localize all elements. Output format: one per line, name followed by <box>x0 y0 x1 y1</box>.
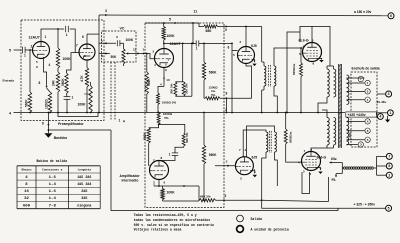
potentiometer 50K <box>120 42 124 44</box>
svg-text:560K: 560K <box>147 78 151 86</box>
svg-text:Voltajes relativos a masa: Voltajes relativos a masa <box>134 228 182 232</box>
wire V2 grid feed <box>67 53 76 73</box>
svg-text:560K: 560K <box>143 132 147 140</box>
svg-text:68K: 68K <box>206 29 213 33</box>
svg-text:11: 11 <box>194 10 198 14</box>
resistor R14 560K grid leak V4 <box>203 43 205 62</box>
tube V8 6L6-G <box>302 152 321 171</box>
svg-text:560K: 560K <box>25 99 29 107</box>
svg-text:1: 1 <box>24 54 26 58</box>
wire loop under bus <box>58 113 98 117</box>
resistor R4 24K <box>56 72 59 92</box>
svg-text:600 v. salvo si se especifica: 600 v. salvo si se especifica un contrar… <box>134 223 214 227</box>
svg-text:6J5: 6J5 <box>252 155 258 159</box>
svg-text:5: 5 <box>388 206 390 210</box>
svg-text:todas los condensadores en mic: todas los condensadores en microfaradios <box>134 218 211 222</box>
svg-text:7: 7 <box>388 155 390 159</box>
svg-text:-46-48v: -46-48v <box>376 100 387 104</box>
output transformer primary lower <box>327 118 329 146</box>
svg-text:68K 5%: 68K 5% <box>200 194 211 198</box>
svg-text:63v.: 63v. <box>331 157 337 161</box>
input coupling capacitor C1 <box>22 47 24 53</box>
svg-text:12AU7: 12AU7 <box>29 36 40 40</box>
svg-text:4.7K: 4.7K <box>80 75 84 82</box>
svg-text:ninguna: ninguna <box>77 203 91 208</box>
svg-text:Todas las resistencias—10%, 5: Todas las resistencias—10%, 5 w y <box>134 213 197 217</box>
T2 wires <box>243 130 266 158</box>
svg-text:16: 16 <box>24 190 29 194</box>
resistor R9 560K grid leak V3 <box>146 53 148 55</box>
svg-text:560K: 560K <box>209 70 217 74</box>
chassis rail wire <box>48 129 111 131</box>
socket pin 1 <box>365 80 370 85</box>
svg-text:Bobina de salida: Bobina de salida <box>37 159 68 163</box>
preamplifier dashed enclosure <box>21 20 104 121</box>
svg-text:2&5: 2&5 <box>81 190 87 194</box>
T2 secondary <box>275 132 277 152</box>
svg-text:4: 4 <box>9 112 11 116</box>
V8 cathode ground <box>315 168 321 170</box>
svg-text:3: 3 <box>105 9 107 13</box>
resistor R17 500 ohm 1w <box>300 47 302 49</box>
svg-text:100K: 100K <box>167 190 176 194</box>
svg-text:9: 9 <box>225 28 227 32</box>
svg-text:VC: VC <box>120 27 125 31</box>
svg-text:1: 1 <box>66 33 68 37</box>
svg-text:100K: 100K <box>78 103 87 107</box>
V8 plate wire to transformer <box>311 148 327 152</box>
V7 cathode ground <box>316 59 322 60</box>
terminal 6 top right <box>388 13 394 19</box>
output transformer secondary lower <box>347 118 349 146</box>
svg-text:6: 6 <box>82 35 84 39</box>
wire bottom left long run <box>111 130 338 211</box>
svg-text:4: 4 <box>379 115 381 119</box>
capacitor C6 <box>175 146 184 153</box>
interstage transformer T1 primary <box>262 61 264 63</box>
wire input cap to V1 grid <box>25 49 32 51</box>
svg-text:3&5: 3&5 <box>81 197 87 201</box>
socket pin 2 <box>365 89 370 94</box>
volume control VC dashed enclosure <box>102 31 137 62</box>
svg-text:4: 4 <box>49 63 51 67</box>
svg-text:+ 325 - + 350v: + 325 - + 350v <box>354 203 376 207</box>
svg-text:1000Ω 5%: 1000Ω 5% <box>162 101 177 105</box>
svg-text:560K: 560K <box>209 153 217 157</box>
terminal 1 right <box>377 112 388 114</box>
svg-text:30K 5%: 30K 5% <box>185 83 189 94</box>
V5 cathode network <box>158 180 160 187</box>
svg-text:Amplificador: Amplificador <box>120 174 141 178</box>
svg-text:6L6-G: 6L6-G <box>317 156 327 160</box>
svg-text:1&5 2&6: 1&5 2&6 <box>77 176 91 180</box>
svg-text:Preamplificador: Preamplificador <box>58 122 84 126</box>
heater terminals 7 8 2 <box>376 156 378 175</box>
svg-text:Conexiones a: Conexiones a <box>42 168 62 172</box>
svg-text:6: 6 <box>228 46 230 50</box>
svg-text:600: 600 <box>23 204 31 208</box>
socket pin 6 <box>365 128 370 133</box>
tube V5 triode <box>150 161 169 180</box>
dashed wires below VC <box>110 62 112 120</box>
svg-text:1-4: 1-4 <box>49 183 57 187</box>
svg-text:50K: 50K <box>111 55 118 59</box>
resistor R20 30K 5% lower <box>182 133 185 146</box>
svg-text:Enchufe de salida: Enchufe de salida <box>352 66 380 70</box>
svg-text:24K: 24K <box>51 79 55 86</box>
svg-text:8: 8 <box>226 92 228 96</box>
svg-text:8: 8 <box>388 164 390 168</box>
svg-text:3: 3 <box>225 194 227 198</box>
svg-text:5%: 5% <box>164 116 169 120</box>
T1 core <box>268 65 270 87</box>
svg-text:5: 5 <box>9 48 11 52</box>
wire +325 +350v run <box>261 199 263 201</box>
svg-text:10: 10 <box>166 78 170 82</box>
resistor R18 500 ohm 1w lower <box>285 113 287 130</box>
svg-text:7-8: 7-8 <box>49 204 57 208</box>
capacitor C3 bottom <box>66 94 69 97</box>
svg-text:30K 5%: 30K 5% <box>185 132 189 143</box>
wire 3/11 top bus <box>99 14 388 17</box>
resistor R5 560K <box>65 73 68 94</box>
wire V2 plate to HT vertical <box>86 34 88 44</box>
svg-text:30K 5%: 30K 5% <box>169 83 173 94</box>
resistor R13 1000 ohm 5% <box>158 112 160 114</box>
wire V4 grid junction down <box>231 51 233 113</box>
wire screen feed V7 <box>287 32 300 113</box>
chassis ground symbol <box>47 113 49 134</box>
V7 plate circuit rectangle <box>300 26 330 65</box>
divider wires from plate line <box>182 43 184 45</box>
bias line -46-48v to terminal 3 <box>377 93 385 95</box>
svg-text:100K: 100K <box>126 38 134 42</box>
svg-text:1: 1 <box>45 35 47 39</box>
tube V2 12AU7 triode b <box>79 44 95 60</box>
wire 5 (amp box top) <box>145 22 193 24</box>
svg-text:1: 1 <box>169 153 171 157</box>
wire line A to V8 <box>262 200 329 201</box>
output socket (Enchufe de salida) dashed enclosure <box>351 72 377 147</box>
resistor R15 68K <box>193 22 199 24</box>
V4 plate wire <box>245 27 247 47</box>
resistor R1 560K grid leak V1 <box>29 49 31 51</box>
resistor R3 100K plate load V1 <box>57 28 59 30</box>
svg-text:Fil.: Fil. <box>332 178 337 182</box>
heater winding braid <box>341 163 343 174</box>
tube V4 6J5 <box>238 47 255 64</box>
wire C5 to V4 grid <box>199 43 238 50</box>
coupling capacitor C5 <box>164 42 196 44</box>
wire to 68K 5% <box>198 199 200 201</box>
wire vertical left B+ drop <box>98 15 100 113</box>
V6 cathode ground <box>250 171 255 173</box>
resistor R7 100K <box>90 82 92 86</box>
svg-text:1-6: 1-6 <box>49 190 57 194</box>
resistors R10 R11 30K 5% ladder <box>175 81 183 83</box>
svg-text:500Ω1w.: 500Ω1w. <box>289 131 293 143</box>
svg-text:1-4: 1-4 <box>49 197 57 201</box>
svg-text:1: 1 <box>389 111 391 115</box>
svg-text:3: 3 <box>388 92 390 96</box>
svg-text:32: 32 <box>24 197 29 201</box>
interstage transformer T2 primary <box>266 132 268 152</box>
svg-text:7: 7 <box>76 43 78 47</box>
svg-text:Ohmios: Ohmios <box>21 168 31 172</box>
wire V1 plate to coupling cap <box>41 29 64 42</box>
svg-text:1200Ω: 1200Ω <box>45 99 49 109</box>
svg-text:a 180 ± 20v: a 180 ± 20v <box>354 10 372 14</box>
svg-text:1: 1 <box>72 95 74 99</box>
output transformer primary upper <box>327 69 329 97</box>
svg-text:6: 6 <box>42 122 44 126</box>
transformer core <box>338 64 340 148</box>
V8 lower loop wire <box>302 172 310 194</box>
socket pin 4 <box>365 119 370 124</box>
legend circle A unidad de potencia <box>237 226 244 233</box>
svg-text:1-6: 1-6 <box>49 176 57 180</box>
svg-text:1: 1 <box>196 47 198 51</box>
svg-text:Bastidor: Bastidor <box>54 136 68 140</box>
resistor R23 560K lower <box>203 113 205 146</box>
legend circle Salida <box>237 215 244 222</box>
svg-text:100K: 100K <box>63 57 72 61</box>
svg-text:2: 2 <box>388 173 390 177</box>
V6 grid wire <box>215 165 235 167</box>
socket pin 7 <box>358 76 363 81</box>
svg-text:500Ω1w.: 500Ω1w. <box>292 63 296 75</box>
tube V1 12AU7 triode a <box>33 42 50 59</box>
svg-text:6J5: 6J5 <box>251 44 257 48</box>
socket pin 1b <box>365 97 370 102</box>
T1 secondary <box>274 66 276 86</box>
resistor R21 100K cathode V5 <box>162 186 164 189</box>
socket pin 5 <box>365 137 370 142</box>
svg-text:Salida: Salida <box>251 217 263 221</box>
svg-text:Lengüeta: Lengüeta <box>78 168 92 172</box>
svg-text:1&5 3&4: 1&5 3&4 <box>77 183 91 187</box>
svg-text:100K: 100K <box>167 34 176 38</box>
resistor R8 100K plate load V3 <box>163 23 165 27</box>
socket pin 3 <box>358 142 363 147</box>
svg-text:intermedio: intermedio <box>122 179 139 183</box>
svg-text:5%: 5% <box>211 93 216 97</box>
V4 cathode ground <box>252 60 255 62</box>
svg-text:12: 12 <box>133 47 137 51</box>
wire C2 to V2 grid <box>70 29 80 53</box>
V4 cathode to 1200ohm <box>246 64 252 99</box>
wire VC wiper output to V3 grid <box>126 52 128 54</box>
svg-text:5: 5 <box>169 18 171 22</box>
svg-text:6: 6 <box>390 14 392 18</box>
voltage amplifier dashed enclosure <box>145 23 224 208</box>
svg-text:1: 1 <box>119 118 121 122</box>
svg-text:A unidad de potencia: A unidad de potencia <box>251 227 289 231</box>
svg-text:8: 8 <box>39 81 41 85</box>
svg-text:600: 600 <box>348 132 352 137</box>
svg-text:+420 +440v: +420 +440v <box>348 113 366 117</box>
T2 core <box>268 131 270 153</box>
tube V6 6J5 <box>235 157 253 175</box>
secondary taps to socket <box>347 77 365 79</box>
svg-text:12AX7: 12AX7 <box>170 42 181 46</box>
svg-text:560K: 560K <box>61 78 65 86</box>
transformer center tap to HT <box>318 97 327 113</box>
resistor R12 1000 ohm 5% cathode <box>157 93 160 104</box>
output transformer secondary upper <box>347 75 349 105</box>
capacitor C4 100K in VC <box>116 40 118 46</box>
coupling capacitor C2 top <box>65 26 67 32</box>
HT label box +420 +440v <box>346 112 377 117</box>
resistor R2 1200 ohm cathode V1 <box>48 92 51 113</box>
terminal 4 <box>378 114 384 120</box>
ground arrow at HT <box>385 120 390 123</box>
svg-text:2: 2 <box>225 108 227 112</box>
svg-text:Entrada: Entrada <box>3 79 15 83</box>
resistor R6 4.7K cathode V2 <box>86 60 88 68</box>
resistor R19 560K grid V5 <box>147 128 150 143</box>
